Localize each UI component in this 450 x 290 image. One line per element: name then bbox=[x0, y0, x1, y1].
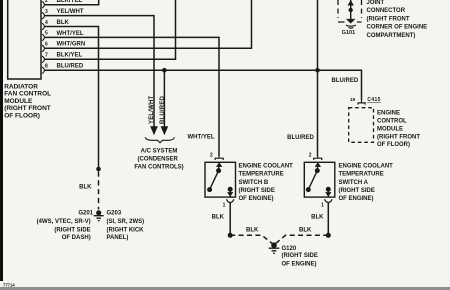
svg-text:8: 8 bbox=[45, 64, 48, 70]
page bottom gray bar bbox=[0, 287, 450, 290]
svg-text:BLU/RED: BLU/RED bbox=[332, 78, 359, 84]
wire vertical from top edge through junction to switch A bbox=[317, 0, 319, 156]
pin hook 7 bbox=[42, 56, 44, 63]
svg-text:4: 4 bbox=[45, 20, 48, 26]
svg-text:(RIGHT SIDE: (RIGHT SIDE bbox=[339, 188, 375, 194]
junction dot BLU/RED 4-way bbox=[315, 68, 320, 73]
svg-text:BLU/RED: BLU/RED bbox=[287, 135, 314, 141]
switch A top terminal bbox=[314, 156, 322, 160]
svg-text:BLK: BLK bbox=[299, 227, 312, 233]
svg-text:19: 19 bbox=[350, 97, 356, 103]
svg-text:(RIGHT FRONT: (RIGHT FRONT bbox=[367, 16, 410, 22]
svg-text:7: 7 bbox=[45, 53, 48, 59]
switch A bottom terminal bbox=[325, 199, 332, 202]
pin hook 2 bbox=[42, 1, 44, 8]
dashed BLK wire left of G120 bbox=[230, 235, 272, 243]
svg-text:(RIGHT FRONT: (RIGHT FRONT bbox=[377, 134, 420, 140]
pin hook 8 bbox=[42, 67, 44, 74]
svg-text:(RIGHT SIDE: (RIGHT SIDE bbox=[239, 188, 275, 194]
svg-text:5: 5 bbox=[45, 31, 48, 37]
svg-text:2: 2 bbox=[309, 153, 312, 159]
G101 wire with terminal arrow bbox=[350, 0, 352, 19]
svg-text:WHT/YEL: WHT/YEL bbox=[188, 135, 215, 141]
svg-text:TEMPERATURE: TEMPERATURE bbox=[239, 172, 284, 178]
joint connector G101 dashed box bbox=[338, 0, 362, 22]
page left border bar bbox=[0, 0, 3, 281]
svg-text:MODULE: MODULE bbox=[4, 98, 33, 105]
junction dot switch B ground run bbox=[228, 233, 233, 238]
pin hook 6 bbox=[42, 45, 44, 52]
G101 ground symbol bbox=[346, 19, 355, 23]
svg-text:WHT/YEL: WHT/YEL bbox=[57, 31, 84, 37]
svg-text:(4WS, VTEC, SR-V): (4WS, VTEC, SR-V) bbox=[37, 219, 91, 225]
arrow YEL/WHT into A/C system bbox=[151, 127, 158, 135]
wire switch A pin1 down bbox=[327, 203, 329, 236]
svg-text:OF DASH): OF DASH) bbox=[62, 235, 91, 241]
wire pin7 BLK/YEL to top bbox=[45, 0, 176, 59]
engine control module dashed box bbox=[349, 108, 374, 143]
svg-text:2: 2 bbox=[45, 0, 48, 4]
switch B top terminal bbox=[215, 156, 223, 160]
svg-text:(RIGHT FRONT: (RIGHT FRONT bbox=[4, 105, 51, 112]
svg-text:(RIGHT KICK: (RIGHT KICK bbox=[107, 228, 145, 234]
wire pin4 BLK dashed to ground bbox=[98, 172, 100, 210]
arrow BLU/RED into A/C system bbox=[161, 127, 168, 135]
svg-text:ENGINE COOLANT: ENGINE COOLANT bbox=[239, 163, 294, 169]
svg-text:COMPARTMENT): COMPARTMENT) bbox=[367, 33, 416, 39]
wire pin2 BLK/YEL to top bbox=[45, 0, 99, 5]
switch B bottom terminal bbox=[227, 199, 234, 202]
pin hook 5 bbox=[42, 34, 44, 41]
svg-text:SWITCH B: SWITCH B bbox=[239, 180, 269, 186]
svg-text:BLK: BLK bbox=[57, 20, 70, 26]
junction dot splice BLU/RED to A/C bbox=[162, 68, 167, 73]
svg-text:3: 3 bbox=[45, 9, 48, 15]
svg-text:YEL/WHT: YEL/WHT bbox=[149, 95, 155, 124]
svg-text:G203: G203 bbox=[107, 211, 122, 217]
svg-text:G120: G120 bbox=[282, 246, 297, 252]
svg-text:BLK/YEL: BLK/YEL bbox=[57, 53, 83, 59]
switch A contact symbol bbox=[306, 163, 331, 197]
pin hook 3 bbox=[42, 12, 44, 19]
svg-text:BLK: BLK bbox=[311, 215, 324, 221]
svg-text:(RIGHT SIDE: (RIGHT SIDE bbox=[282, 253, 318, 259]
svg-text:C415: C415 bbox=[367, 97, 380, 103]
svg-text:BLU/RED: BLU/RED bbox=[160, 95, 166, 124]
svg-text:OF FLOOR): OF FLOOR) bbox=[377, 142, 410, 148]
svg-text:A/C SYSTEM: A/C SYSTEM bbox=[141, 148, 178, 154]
svg-text:YEL/WHT: YEL/WHT bbox=[57, 9, 84, 15]
svg-text:WHT/GRN: WHT/GRN bbox=[57, 42, 86, 48]
svg-text:(RIGHT SIDE: (RIGHT SIDE bbox=[54, 228, 90, 234]
wire switch B pin1 down bbox=[229, 203, 231, 236]
wire pin8 BLU/RED main run bbox=[45, 70, 362, 99]
svg-text:ENGINE COOLANT: ENGINE COOLANT bbox=[339, 163, 394, 169]
svg-text:SWITCH A: SWITCH A bbox=[339, 180, 369, 186]
svg-text:(CONDENSER: (CONDENSER bbox=[138, 156, 179, 162]
splice dot on BLK wire bbox=[96, 167, 101, 172]
G101 junction dot bbox=[349, 8, 353, 12]
svg-text:BLK: BLK bbox=[212, 215, 225, 221]
engine coolant temperature switch B box bbox=[205, 162, 236, 197]
svg-text:OF ENGINE): OF ENGINE) bbox=[239, 196, 274, 202]
svg-text:BLU/RED: BLU/RED bbox=[57, 64, 84, 70]
svg-text:BLK: BLK bbox=[79, 185, 92, 191]
svg-text:MODULE: MODULE bbox=[377, 127, 403, 133]
ground symbol G201/G203 bbox=[94, 210, 104, 220]
switch B contact symbol bbox=[208, 163, 233, 197]
ground symbol G120 bbox=[269, 242, 280, 253]
svg-text:JOINT: JOINT bbox=[367, 0, 385, 6]
svg-text:PANEL): PANEL) bbox=[107, 235, 129, 241]
pin hook 4 bbox=[42, 23, 44, 30]
dashed BLK wire right of G120 bbox=[276, 235, 329, 243]
svg-text:6: 6 bbox=[45, 42, 48, 48]
wire pin4 BLK down bbox=[45, 27, 99, 170]
svg-text:TEMPERATURE: TEMPERATURE bbox=[339, 172, 384, 178]
svg-text:CONTROL: CONTROL bbox=[377, 119, 407, 125]
svg-text:OF ENGINE): OF ENGINE) bbox=[339, 196, 374, 202]
svg-text:1: 1 bbox=[321, 202, 324, 208]
svg-text:1: 1 bbox=[223, 202, 226, 208]
svg-text:G101: G101 bbox=[342, 30, 355, 36]
svg-text:77714: 77714 bbox=[3, 283, 15, 288]
svg-text:BLK: BLK bbox=[246, 227, 259, 233]
brace under A/C arrows bbox=[145, 137, 175, 142]
wire BLU/RED branch down to A/C bbox=[163, 70, 165, 128]
junction dot switch A ground run bbox=[326, 233, 331, 238]
svg-text:OF FLOOR): OF FLOOR) bbox=[4, 113, 40, 120]
svg-text:G201: G201 bbox=[78, 211, 93, 217]
svg-text:RADIATOR: RADIATOR bbox=[4, 83, 38, 90]
radiator fan control module box bbox=[8, 0, 41, 79]
svg-text:ENGINE: ENGINE bbox=[377, 111, 400, 117]
wire pin6 WHT/GRN to top bbox=[45, 0, 252, 48]
svg-text:CONNECTOR: CONNECTOR bbox=[367, 8, 406, 14]
engine coolant temperature switch A box bbox=[304, 162, 335, 197]
svg-text:CORNER OF ENGINE: CORNER OF ENGINE bbox=[367, 25, 428, 31]
svg-text:2: 2 bbox=[210, 153, 213, 159]
wire pin3 YEL/WHT down to A/C bbox=[45, 16, 155, 129]
svg-text:OF ENGINE): OF ENGINE) bbox=[282, 262, 317, 268]
svg-text:BLK/YEL: BLK/YEL bbox=[57, 0, 83, 4]
ECM terminal symbol bbox=[358, 100, 365, 105]
svg-text:FAN CONTROL: FAN CONTROL bbox=[4, 91, 51, 98]
svg-text:(SI, SR, 2WS): (SI, SR, 2WS) bbox=[107, 219, 145, 225]
svg-text:FAN CONTROLS): FAN CONTROLS) bbox=[134, 165, 183, 171]
wire pin5 WHT/YEL down to switch B bbox=[45, 37, 220, 156]
